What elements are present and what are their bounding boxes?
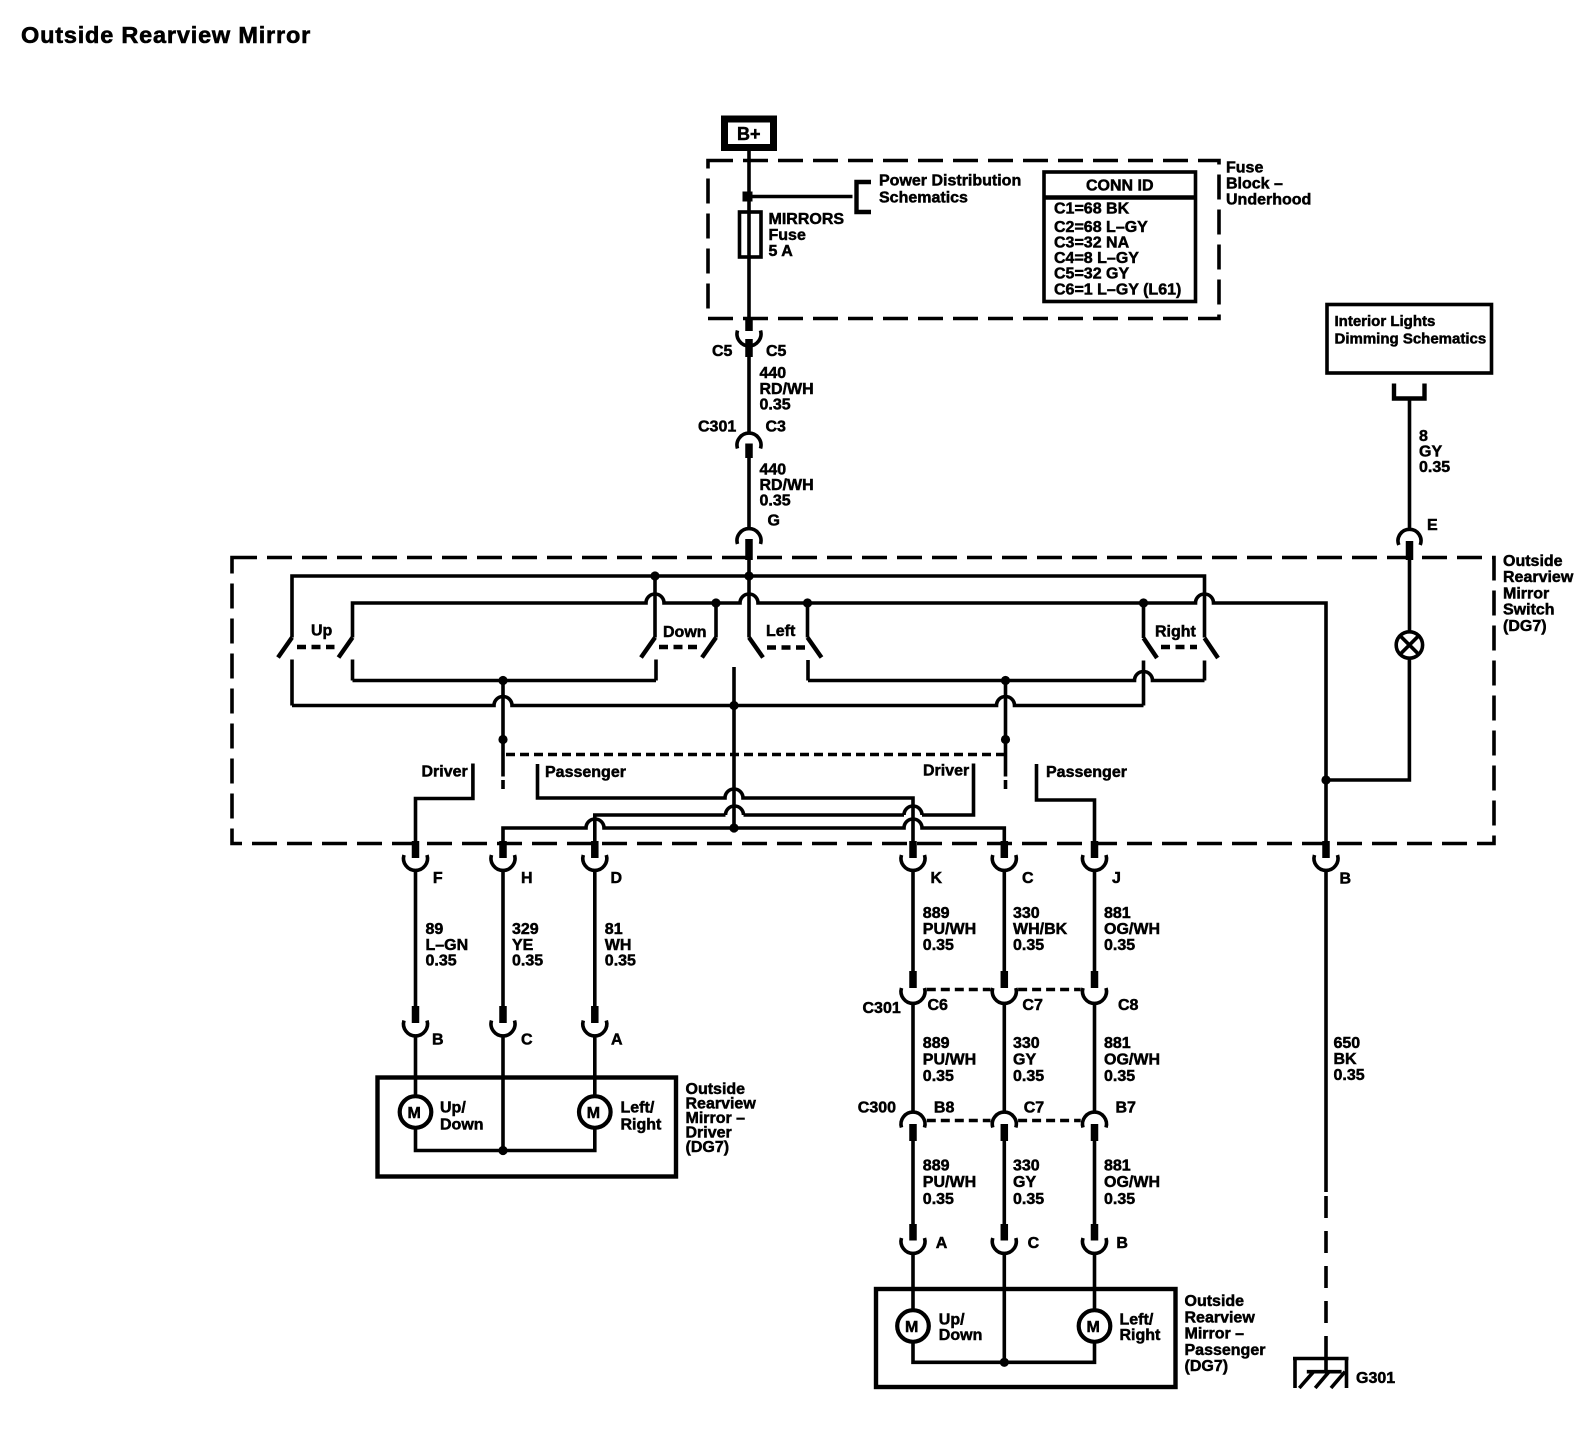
passenger mirror box xyxy=(876,1289,1176,1387)
node second rail left switch xyxy=(803,598,812,607)
svg-text:C1=68 BK: C1=68 BK xyxy=(1054,200,1130,217)
svg-text:881: 881 xyxy=(1104,905,1131,922)
svg-text:C301: C301 xyxy=(698,419,736,436)
svg-text:Rearview: Rearview xyxy=(1503,569,1574,586)
wire 89 L-GN xyxy=(414,870,418,1006)
svg-text:OG/WH: OG/WH xyxy=(1104,921,1160,938)
svg-text:D: D xyxy=(611,870,623,887)
svg-text:GY: GY xyxy=(1013,1052,1036,1069)
svg-text:Left/: Left/ xyxy=(1120,1312,1154,1329)
svg-text:Up/: Up/ xyxy=(440,1100,466,1117)
svg-text:E: E xyxy=(1427,517,1438,534)
svg-text:C: C xyxy=(1022,870,1034,887)
wire A to motor passenger xyxy=(911,1253,915,1310)
connector B switch xyxy=(1322,841,1330,858)
svg-text:Fuse: Fuse xyxy=(769,227,806,244)
svg-text:Mirror: Mirror xyxy=(1503,586,1549,603)
svg-text:C3=32 NA: C3=32 NA xyxy=(1054,234,1130,251)
svg-text:0.35: 0.35 xyxy=(760,493,791,510)
svg-text:81: 81 xyxy=(605,921,623,938)
svg-text:C6=1 L–GY (L61): C6=1 L–GY (L61) xyxy=(1054,282,1181,299)
svg-text:B+: B+ xyxy=(737,124,761,144)
connector A passenger mirror xyxy=(909,1224,917,1241)
fuse MIRRORS 5A xyxy=(740,212,762,257)
svg-text:329: 329 xyxy=(512,921,539,938)
node selector drop A xyxy=(498,676,507,685)
svg-text:0.35: 0.35 xyxy=(923,1191,954,1208)
dimming lamp xyxy=(1396,632,1422,658)
svg-text:Fuse: Fuse xyxy=(1226,160,1263,177)
svg-text:Left/: Left/ xyxy=(621,1100,655,1117)
svg-text:B8: B8 xyxy=(934,1100,955,1117)
wire dashed to ground xyxy=(1324,1196,1328,1352)
svg-text:C7: C7 xyxy=(1024,1100,1045,1117)
svg-text:Right: Right xyxy=(1155,624,1197,641)
svg-text:PU/WH: PU/WH xyxy=(923,1052,976,1069)
svg-text:Down: Down xyxy=(663,624,707,641)
svg-text:330: 330 xyxy=(1013,1158,1040,1175)
node junction at fuse feed xyxy=(743,192,753,202)
svg-text:GY: GY xyxy=(1419,444,1442,461)
connector D xyxy=(591,841,599,858)
svg-text:0.35: 0.35 xyxy=(1104,937,1135,954)
svg-text:Passenger: Passenger xyxy=(545,764,626,781)
svg-text:0.35: 0.35 xyxy=(1419,459,1450,476)
selector blade wire A xyxy=(501,681,505,777)
svg-text:650: 650 xyxy=(1334,1035,1361,1052)
svg-text:PU/WH: PU/WH xyxy=(923,1174,976,1191)
svg-text:0.35: 0.35 xyxy=(1013,1068,1044,1085)
wire 440 RD/WH lower xyxy=(747,458,751,528)
top supply rail xyxy=(292,576,1205,638)
interior lights dimming reference box xyxy=(1327,305,1492,374)
motor up-down passenger xyxy=(897,1310,929,1342)
svg-text:C: C xyxy=(1028,1235,1040,1252)
wire 330 WH/BK xyxy=(1002,870,1006,972)
connector J xyxy=(1091,841,1099,858)
second rail with crossover hops xyxy=(353,594,1327,844)
node top rail to down switch xyxy=(650,571,659,580)
connector B passenger mirror xyxy=(1091,1224,1099,1241)
wire 881 OG/WH lower xyxy=(1093,1141,1097,1226)
svg-text:Dimming Schematics: Dimming Schematics xyxy=(1335,331,1487,348)
svg-text:Passenger: Passenger xyxy=(1185,1342,1266,1359)
svg-text:WH: WH xyxy=(605,937,632,954)
svg-text:Driver: Driver xyxy=(923,763,969,780)
svg-text:F: F xyxy=(433,870,443,887)
svg-text:C5=32 GY: C5=32 GY xyxy=(1054,266,1129,283)
svg-text:881: 881 xyxy=(1104,1035,1131,1052)
wire 881 OG/WH mid xyxy=(1093,1003,1097,1112)
svg-text:0.35: 0.35 xyxy=(760,397,791,414)
svg-text:Power Distribution: Power Distribution xyxy=(879,173,1021,190)
svg-text:L–GN: L–GN xyxy=(426,937,469,954)
node ground junction xyxy=(1321,775,1330,784)
svg-text:(DG7): (DG7) xyxy=(1503,618,1547,635)
node common center xyxy=(729,701,738,710)
svg-text:Block –: Block – xyxy=(1226,176,1283,193)
wire 81 WH xyxy=(593,870,597,1006)
selector mechanical link dotted xyxy=(506,753,1004,757)
motor up-down driver xyxy=(400,1096,432,1128)
node selector drop C xyxy=(1001,676,1010,685)
svg-text:A: A xyxy=(936,1235,948,1252)
svg-text:YE: YE xyxy=(512,937,534,954)
wire 889 PU/WH lower xyxy=(911,1141,915,1226)
svg-text:C5: C5 xyxy=(766,343,787,360)
wire 889 PU/WH xyxy=(911,870,915,972)
motor common wires xyxy=(416,1128,595,1151)
node top rail to power feed xyxy=(744,571,753,580)
svg-text:Schematics: Schematics xyxy=(879,190,968,207)
wire 8 GY xyxy=(1408,399,1412,531)
svg-text:889: 889 xyxy=(923,1158,950,1175)
svg-text:OG/WH: OG/WH xyxy=(1104,1052,1160,1069)
svg-text:Left: Left xyxy=(766,623,796,640)
svg-text:Outside Rearview Mirror: Outside Rearview Mirror xyxy=(21,22,311,48)
svg-text:330: 330 xyxy=(1013,905,1040,922)
common blade center drop xyxy=(732,667,736,828)
wire A to motor xyxy=(593,1036,597,1096)
svg-text:K: K xyxy=(931,870,943,887)
svg-text:0.35: 0.35 xyxy=(1013,937,1044,954)
svg-text:MIRRORS: MIRRORS xyxy=(769,211,845,228)
svg-text:PU/WH: PU/WH xyxy=(923,921,976,938)
svg-text:Outside: Outside xyxy=(1185,1293,1245,1310)
svg-text:(DG7): (DG7) xyxy=(686,1139,730,1156)
ground G301 xyxy=(1293,1357,1349,1361)
connector B driver mirror xyxy=(412,1006,420,1023)
driver mirror box xyxy=(378,1078,677,1177)
svg-text:0.35: 0.35 xyxy=(923,937,954,954)
connector C passenger mirror xyxy=(1001,1224,1009,1241)
wire 889 PU/WH mid xyxy=(911,1003,915,1112)
svg-text:C6: C6 xyxy=(928,997,949,1014)
connector H xyxy=(499,841,507,858)
svg-text:0.35: 0.35 xyxy=(426,953,457,970)
svg-text:M: M xyxy=(1087,1319,1100,1336)
svg-text:C3: C3 xyxy=(766,419,787,436)
svg-text:Down: Down xyxy=(939,1327,983,1344)
svg-text:CONN ID: CONN ID xyxy=(1086,178,1154,195)
svg-text:0.35: 0.35 xyxy=(1104,1191,1135,1208)
selector blade wire C xyxy=(1004,681,1008,777)
svg-text:GY: GY xyxy=(1013,1174,1036,1191)
outside rearview mirror switch dashed box xyxy=(232,558,1494,844)
wire B to motor xyxy=(414,1036,418,1096)
svg-text:5 A: 5 A xyxy=(769,243,794,260)
connector C switch xyxy=(1001,841,1009,858)
CONN ID table xyxy=(1044,172,1196,302)
svg-text:Up/: Up/ xyxy=(939,1312,965,1329)
node second rail right switch xyxy=(1139,598,1148,607)
bracket below interior lights box xyxy=(1394,384,1425,399)
svg-text:440: 440 xyxy=(760,462,787,479)
svg-text:M: M xyxy=(905,1319,918,1336)
svg-text:C8: C8 xyxy=(1118,997,1139,1014)
battery feed B+ terminal xyxy=(725,119,774,148)
svg-text:M: M xyxy=(587,1105,600,1122)
motor left-right driver xyxy=(579,1096,611,1128)
bracket power distribution schematics xyxy=(857,182,872,212)
wire left-right output right segment xyxy=(808,672,1205,681)
svg-text:C300: C300 xyxy=(858,1100,896,1117)
svg-text:Up: Up xyxy=(311,623,333,640)
svg-text:881: 881 xyxy=(1104,1158,1131,1175)
svg-text:G301: G301 xyxy=(1356,1370,1395,1387)
svg-text:Right: Right xyxy=(621,1117,663,1134)
connector F xyxy=(412,841,420,858)
motor left-right passenger xyxy=(1079,1310,1111,1342)
fuse block underhood dashed box xyxy=(708,161,1219,319)
svg-text:0.35: 0.35 xyxy=(923,1068,954,1085)
svg-text:440: 440 xyxy=(760,365,787,382)
common rail to H and C xyxy=(503,819,1004,844)
svg-text:Mirror –: Mirror – xyxy=(1185,1326,1245,1343)
wire up-down output left xyxy=(353,679,657,683)
svg-text:J: J xyxy=(1112,870,1121,887)
wire B to motor passenger xyxy=(1093,1253,1097,1310)
svg-text:M: M xyxy=(408,1105,421,1122)
connector A driver mirror xyxy=(591,1006,599,1023)
svg-text:889: 889 xyxy=(923,905,950,922)
svg-text:Rearview: Rearview xyxy=(1185,1310,1256,1327)
node second rail down switch xyxy=(711,598,720,607)
wire B+ to fuse xyxy=(747,151,751,326)
svg-text:G: G xyxy=(768,513,780,530)
svg-text:C5: C5 xyxy=(712,343,733,360)
svg-text:B: B xyxy=(1116,1235,1128,1252)
wire 330 GY mid xyxy=(1002,1003,1006,1112)
svg-text:889: 889 xyxy=(923,1035,950,1052)
svg-text:Interior Lights: Interior Lights xyxy=(1335,313,1436,330)
svg-text:0.35: 0.35 xyxy=(605,953,636,970)
svg-text:Underhood: Underhood xyxy=(1226,192,1311,209)
svg-text:C4=8 L–GY: C4=8 L–GY xyxy=(1054,250,1139,267)
svg-text:WH/BK: WH/BK xyxy=(1013,921,1068,938)
motor common wires passenger xyxy=(913,1342,1095,1363)
svg-text:OG/WH: OG/WH xyxy=(1104,1174,1160,1191)
svg-text:B: B xyxy=(432,1032,444,1049)
connector C5 at fuse block xyxy=(745,319,753,332)
wire 440 RD/WH xyxy=(747,357,751,433)
svg-text:C7: C7 xyxy=(1022,997,1043,1014)
connector K xyxy=(909,841,917,858)
svg-text:330: 330 xyxy=(1013,1035,1040,1052)
connector C driver mirror xyxy=(499,1006,507,1023)
wire 330 GY lower xyxy=(1002,1141,1006,1226)
wire 650 BK xyxy=(1324,870,1328,1192)
svg-text:H: H xyxy=(521,870,533,887)
svg-text:C301: C301 xyxy=(863,1000,901,1017)
svg-text:Outside: Outside xyxy=(1503,553,1563,570)
svg-text:0.35: 0.35 xyxy=(1104,1068,1135,1085)
svg-text:C2=68 L–GY: C2=68 L–GY xyxy=(1054,219,1148,236)
svg-text:C: C xyxy=(521,1032,533,1049)
svg-text:RD/WH: RD/WH xyxy=(760,381,814,398)
svg-text:Switch: Switch xyxy=(1503,602,1555,619)
svg-text:A: A xyxy=(611,1032,623,1049)
svg-text:Driver: Driver xyxy=(422,764,468,781)
svg-text:8: 8 xyxy=(1419,428,1428,445)
svg-text:Down: Down xyxy=(440,1117,484,1134)
svg-text:0.35: 0.35 xyxy=(512,953,543,970)
svg-text:89: 89 xyxy=(426,921,444,938)
svg-text:B: B xyxy=(1340,871,1352,888)
svg-text:RD/WH: RD/WH xyxy=(760,477,814,494)
svg-text:BK: BK xyxy=(1334,1051,1358,1068)
wire 329 YE xyxy=(501,870,505,1006)
svg-text:0.35: 0.35 xyxy=(1013,1191,1044,1208)
wire 881 OG/WH xyxy=(1093,870,1097,972)
svg-text:B7: B7 xyxy=(1116,1100,1137,1117)
wire lamp to ground rail xyxy=(1326,658,1409,780)
wire common output with hops xyxy=(292,697,1144,706)
svg-text:Right: Right xyxy=(1120,1327,1162,1344)
wire to power distribution reference xyxy=(749,195,853,199)
svg-text:Passenger: Passenger xyxy=(1046,764,1127,781)
svg-text:(DG7): (DG7) xyxy=(1185,1358,1229,1375)
svg-text:0.35: 0.35 xyxy=(1334,1067,1365,1084)
